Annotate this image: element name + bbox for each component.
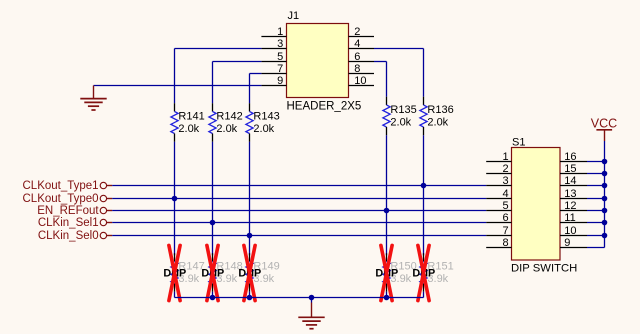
port EN_REFout — [37, 205, 112, 217]
wire R149 to rail — [249, 292, 251, 298]
resistor R135 2.0k — [383, 97, 417, 136]
wire CLKout_Type1 — [112, 185, 486, 187]
J1 pin 2 — [349, 26, 375, 38]
svg-text:CLKout_Type1: CLKout_Type1 — [23, 180, 99, 192]
svg-text:CLKout_Type0: CLKout_Type0 — [23, 193, 99, 205]
J1 pin 6 — [349, 51, 375, 63]
wire R150 to rail — [386, 292, 388, 298]
wire R135 column to R150 — [386, 135, 388, 255]
svg-text:6: 6 — [502, 212, 508, 224]
J1 pin 8 — [349, 63, 375, 75]
S1 pin 15 — [560, 163, 587, 175]
wire J1 pin5 to R142 — [213, 61, 262, 63]
S1 pin 11 — [560, 212, 587, 224]
svg-text:4: 4 — [502, 188, 508, 200]
wire R136 column — [423, 49, 425, 97]
wire R151 to rail — [423, 292, 425, 298]
svg-text:9: 9 — [564, 237, 570, 249]
S1 pin 7 — [486, 225, 511, 237]
S1 pin 10 — [560, 225, 587, 237]
junction VCC bus pin 15 — [602, 171, 608, 177]
svg-text:10: 10 — [354, 75, 366, 87]
svg-text:2.0k: 2.0k — [390, 116, 411, 128]
junction rail R148 — [210, 295, 216, 301]
junction rail R149 — [247, 295, 253, 301]
ground (bottom) — [298, 298, 324, 329]
J1 pin 9 — [261, 75, 286, 87]
wire J1 pin4 to R136 — [374, 48, 424, 50]
svg-text:3: 3 — [277, 38, 283, 50]
svg-text:R136: R136 — [427, 104, 453, 116]
svg-text:S1: S1 — [512, 137, 525, 149]
S1 pin 9 — [560, 237, 587, 249]
port CLKout_Type1 — [23, 180, 113, 192]
wire J1 pin7 to R143 — [250, 73, 262, 75]
svg-text:2: 2 — [502, 163, 508, 175]
svg-text:8: 8 — [502, 237, 508, 249]
svg-text:CLKin_Sel1: CLKin_Sel1 — [38, 217, 99, 229]
resistor R141 2.0k — [171, 103, 205, 142]
svg-text:4: 4 — [354, 38, 360, 50]
svg-text:R135: R135 — [390, 104, 416, 116]
S1 pin 8 — [486, 237, 511, 249]
no-fit cross R147 — [169, 245, 180, 300]
svg-text:7: 7 — [277, 63, 283, 75]
svg-text:R143: R143 — [253, 111, 279, 123]
svg-text:CLKin_Sel0: CLKin_Sel0 — [38, 230, 99, 242]
no-fit cross R148 — [207, 245, 218, 300]
wire R142 column — [212, 62, 214, 104]
resistor R142 2.0k — [209, 103, 243, 142]
wire J1 pin9 to ground — [94, 85, 262, 87]
wire R136 column to R151 — [423, 135, 425, 255]
S1 pin 13 — [560, 188, 587, 200]
wire R148 to rail — [212, 292, 214, 298]
wire R141 column to R147 — [174, 142, 176, 255]
no-fit cross R149 — [244, 245, 255, 300]
junction VCC bus pin 14 — [602, 183, 608, 189]
svg-text:13: 13 — [564, 188, 576, 200]
junction VCC bus pin 13 — [602, 196, 608, 202]
wire VCC bus — [604, 141, 606, 248]
wire J1 pin3 to R141 — [175, 48, 262, 50]
svg-text:9: 9 — [277, 75, 283, 87]
S1 pin 3 — [486, 175, 511, 187]
J1 pin 1 — [261, 26, 286, 38]
junction R142 / CLKin_Sel1 — [210, 220, 216, 226]
wire CLKout_Type0 — [112, 198, 486, 200]
junction VCC bus pin 10 — [602, 233, 608, 239]
S1 pin 4 — [486, 188, 511, 200]
wire R143 column to R149 — [249, 142, 251, 255]
port CLKout_Type0 — [23, 193, 113, 205]
no-fit cross R150 — [381, 245, 392, 300]
header J1 — [287, 10, 362, 112]
wire R135 column — [386, 62, 388, 97]
svg-text:2.0k: 2.0k — [427, 116, 448, 128]
svg-text:EN_REFout: EN_REFout — [37, 205, 99, 217]
svg-text:11: 11 — [564, 212, 575, 224]
wire S1 right pins to VCC bus — [587, 162, 605, 248]
resistor R147 3.9k DNP — [171, 253, 205, 292]
svg-text:VCC: VCC — [591, 117, 617, 131]
svg-text:7: 7 — [502, 225, 508, 237]
junction VCC bus pin 12 — [602, 208, 608, 214]
svg-text:R141: R141 — [178, 111, 204, 123]
ground (top left) — [80, 86, 106, 111]
resistor R143 2.0k — [246, 103, 280, 142]
svg-text:DIP SWITCH: DIP SWITCH — [511, 263, 577, 275]
resistor R148 3.9k DNP — [209, 253, 243, 292]
port CLKin_Sel1 — [38, 217, 112, 229]
svg-text:2: 2 — [354, 26, 360, 38]
svg-text:2.0k: 2.0k — [216, 123, 237, 135]
svg-text:10: 10 — [564, 225, 576, 237]
resistor R149 3.9k DNP — [246, 253, 280, 292]
junction VCC bus pin 16 — [602, 159, 608, 165]
svg-text:2.0k: 2.0k — [253, 123, 274, 135]
J1 pin 5 — [261, 51, 286, 63]
wire bottom rail — [175, 297, 424, 299]
wire CLKin_Sel0 — [112, 235, 486, 237]
S1 pin 16 — [560, 151, 587, 163]
svg-text:1: 1 — [277, 26, 283, 38]
wire CLKin_Sel1 — [112, 222, 486, 224]
S1 pin 12 — [560, 200, 587, 212]
svg-text:2.0k: 2.0k — [178, 123, 199, 135]
svg-text:12: 12 — [564, 200, 576, 212]
junction R143 / CLKin_Sel0 — [247, 233, 253, 239]
junction R136 / CLKout_Type1 — [421, 183, 427, 189]
svg-text:3: 3 — [502, 175, 508, 187]
svg-text:5: 5 — [277, 51, 283, 63]
J1 pin 7 — [261, 63, 286, 75]
junction R135 / EN_REFout — [384, 208, 390, 214]
port CLKin_Sel0 — [38, 230, 112, 242]
svg-text:15: 15 — [564, 163, 576, 175]
svg-text:HEADER_2X5: HEADER_2X5 — [287, 101, 362, 113]
no-fit cross R151 — [418, 245, 429, 300]
DIP switch S1 — [511, 137, 577, 275]
power VCC — [591, 117, 617, 141]
svg-text:J1: J1 — [288, 10, 300, 22]
svg-text:6: 6 — [354, 51, 360, 63]
J1 pin 3 — [261, 38, 286, 50]
S1 pin 6 — [486, 212, 511, 224]
svg-text:8: 8 — [354, 63, 360, 75]
J1 pin 4 — [349, 38, 375, 50]
svg-text:R142: R142 — [216, 111, 242, 123]
S1 pin 5 — [486, 200, 511, 212]
wire R143 column — [249, 74, 251, 104]
svg-text:14: 14 — [564, 175, 576, 187]
resistor R150 3.9k DNP — [383, 253, 417, 292]
svg-text:5: 5 — [502, 200, 508, 212]
junction rail ground — [309, 295, 315, 301]
svg-text:16: 16 — [564, 151, 576, 163]
wire EN_REFout — [112, 210, 486, 212]
wire R147 to rail — [174, 292, 176, 298]
J1 pin 10 — [349, 75, 375, 87]
resistor R151 3.9k DNP — [420, 253, 454, 292]
wire R142 column to R148 — [212, 142, 214, 255]
wire J1 pin6 to R135 — [374, 61, 387, 63]
wire R141 column — [174, 49, 176, 104]
resistor R136 2.0k — [420, 97, 454, 136]
S1 pin 14 — [560, 175, 587, 187]
S1 pin 1 — [486, 151, 511, 163]
svg-text:1: 1 — [502, 151, 508, 163]
junction rail R150 — [384, 295, 390, 301]
junction VCC bus pin 11 — [602, 220, 608, 226]
junction R141 / CLKout_Type0 — [172, 196, 178, 202]
S1 pin 2 — [486, 163, 511, 175]
